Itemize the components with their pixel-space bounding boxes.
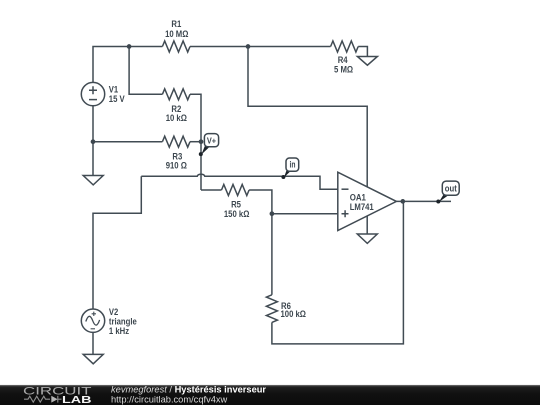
svg-text:V1: V1: [109, 84, 118, 94]
svg-text:100 kΩ: 100 kΩ: [281, 309, 307, 319]
svg-text:910 Ω: 910 Ω: [166, 160, 187, 170]
svg-text:R1: R1: [171, 19, 181, 29]
svg-text:10 kΩ: 10 kΩ: [166, 113, 187, 123]
svg-text:15 V: 15 V: [109, 94, 126, 104]
svg-text:kevmegforest / Hystérésis inve: kevmegforest / Hystérésis inverseur: [111, 385, 266, 395]
svg-text:LAB: LAB: [62, 394, 92, 405]
svg-text:http://circuitlab.com/cqfv4xw: http://circuitlab.com/cqfv4xw: [111, 394, 228, 404]
svg-text:5 MΩ: 5 MΩ: [334, 65, 353, 75]
svg-text:OA1: OA1: [350, 192, 366, 202]
svg-text:out: out: [445, 183, 457, 193]
svg-text:V+: V+: [207, 136, 216, 146]
svg-text:R5: R5: [231, 199, 241, 209]
svg-text:150 kΩ: 150 kΩ: [224, 209, 250, 219]
svg-text:10 MΩ: 10 MΩ: [165, 29, 188, 39]
svg-text:in: in: [290, 160, 296, 170]
svg-text:LM741: LM741: [350, 202, 374, 212]
svg-text:triangle: triangle: [109, 317, 137, 327]
svg-text:1 kHz: 1 kHz: [109, 326, 130, 336]
